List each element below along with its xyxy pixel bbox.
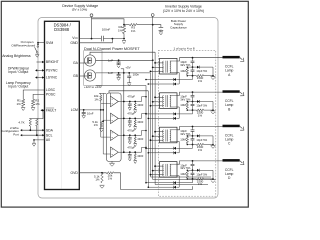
capacitor 470pF b bbox=[129, 118, 131, 121]
svg-text:POSC: POSC bbox=[46, 93, 56, 97]
wire SCL bbox=[21, 134, 45, 136]
svg-text:(12V ± 10% to 24V ± 10%): (12V ± 10% to 24V ± 10%) bbox=[163, 9, 204, 13]
capacitor 100nF decoupling bbox=[100, 36, 102, 42]
+5V rail down bbox=[123, 69, 125, 152]
inverter rail v4 bbox=[153, 16, 211, 179]
svg-text:470pF: 470pF bbox=[127, 112, 135, 116]
ground 5.1k lcm bbox=[99, 128, 103, 130]
svg-text:LOSC: LOSC bbox=[46, 88, 56, 92]
svg-text:1%: 1% bbox=[118, 28, 123, 32]
resistor 20k bbox=[107, 172, 114, 174]
bus v3 bbox=[151, 73, 212, 177]
svg-text:4300: 4300 bbox=[137, 137, 143, 141]
wire Q1 out bbox=[96, 59, 153, 61]
wire output U2c bbox=[118, 134, 141, 136]
wire output U2d bbox=[118, 151, 141, 153]
IC U1 DS3984/DS3988 box bbox=[45, 21, 80, 189]
wire 5V terminal down bbox=[91, 17, 93, 39]
svg-text:100n: 100n bbox=[133, 73, 140, 77]
capacitor 10nF LCM bbox=[83, 110, 85, 113]
svg-text:4300: 4300 bbox=[137, 103, 143, 107]
svg-text:GND: GND bbox=[70, 41, 78, 45]
resistor 4300 a bbox=[134, 102, 136, 104]
op-amp supply stub bbox=[110, 93, 112, 97]
svg-text:Port: Port bbox=[13, 133, 19, 137]
svg-text:SVM: SVM bbox=[46, 41, 54, 45]
resistor R3 bbox=[130, 23, 138, 26]
inverter supply terminal bbox=[151, 14, 154, 17]
transistor Q2 (N-channel MOSFET) bbox=[84, 70, 95, 81]
resistor R2 bbox=[31, 99, 34, 106]
op-amp internal divider line bbox=[61, 22, 63, 188]
capacitor 470pF c bbox=[129, 135, 131, 138]
svg-text:GB: GB bbox=[73, 74, 79, 78]
svg-text:470pF: 470pF bbox=[127, 129, 135, 133]
rail taps channel B bbox=[154, 96, 156, 98]
svg-text:BRIGHT: BRIGHT bbox=[46, 60, 59, 64]
wire aux rail bbox=[109, 91, 148, 94]
op-amp U2c bbox=[111, 130, 119, 140]
wire output U2b bbox=[118, 117, 141, 119]
wire FAULT bbox=[41, 109, 45, 111]
svg-text:A0: A0 bbox=[46, 138, 50, 142]
mosfet module box bbox=[84, 51, 102, 86]
svg-text:FAULT: FAULT bbox=[46, 109, 56, 113]
device supply terminal bbox=[90, 14, 93, 17]
svg-text:100nF: 100nF bbox=[102, 27, 111, 31]
wire 5V to R4 bbox=[92, 19, 125, 26]
node Q1 out cap bbox=[118, 59, 120, 61]
svg-text:1%: 1% bbox=[108, 177, 113, 181]
wire 20k to bottom bus bbox=[114, 173, 193, 190]
svg-text:470pF: 470pF bbox=[127, 95, 135, 99]
ground cap b bbox=[128, 123, 131, 125]
node inverter rail bbox=[152, 24, 154, 26]
svg-text:470pF: 470pF bbox=[127, 145, 135, 149]
rail taps channel A bbox=[154, 62, 156, 64]
arrow into switch bbox=[37, 43, 39, 44]
arrow PSYNC bbox=[36, 69, 45, 71]
bulk capacitor bbox=[159, 26, 164, 28]
resistor 4300 b bbox=[134, 118, 136, 120]
wire out tail a bbox=[142, 97, 147, 102]
svg-text:Input / Output: Input / Output bbox=[8, 70, 28, 74]
ground at R1 bbox=[21, 107, 25, 109]
op-amp U2b bbox=[111, 113, 119, 123]
wire Q1 drain up bbox=[90, 52, 155, 55]
wire input U2d bbox=[103, 153, 110, 155]
transformer/lamp channel C bbox=[145, 125, 244, 155]
module outline (gray rounded box) bbox=[38, 18, 218, 199]
resistor R1 bbox=[22, 99, 25, 106]
pullup resistor 4.7K b bbox=[36, 119, 38, 127]
node OVD bbox=[101, 172, 103, 174]
svg-text:10nF: 10nF bbox=[87, 111, 94, 115]
svg-text:SDA: SDA bbox=[46, 128, 54, 132]
wire OVD bbox=[79, 172, 106, 174]
wire input U2a bbox=[101, 102, 111, 104]
arrow into BRIGHT bbox=[37, 61, 45, 63]
svg-text:PSYNC: PSYNC bbox=[46, 69, 58, 73]
wire out tail c bbox=[142, 131, 147, 136]
resistor 10k bbox=[100, 95, 102, 101]
bus v2 bbox=[147, 91, 149, 187]
wire stub to bulk cap bbox=[153, 25, 161, 28]
dashed box: 1 of up to 4 or 8 bbox=[158, 50, 216, 196]
ground cap a bbox=[128, 106, 131, 108]
ground cap d bbox=[128, 157, 131, 159]
capacitor 1nF a bbox=[118, 60, 120, 62]
capacitor 470pF a bbox=[129, 102, 131, 105]
svg-text:LCM: LCM bbox=[71, 108, 78, 112]
svg-text:Off/Reset=closed: Off/Reset=closed bbox=[11, 43, 35, 47]
ground at R4 bottom bbox=[122, 40, 126, 42]
ground res d bbox=[134, 160, 137, 162]
svg-text:GA: GA bbox=[73, 61, 79, 65]
rail taps channel D bbox=[154, 165, 156, 167]
wire cap to gnd node bbox=[104, 38, 125, 40]
resistor 5.1k ovd bbox=[101, 173, 103, 183]
svg-text:1%: 1% bbox=[94, 123, 99, 127]
wire pullup a to SDA bbox=[29, 126, 31, 130]
wire R4 bottom bbox=[123, 34, 125, 39]
wire R4 node to R3 bbox=[124, 24, 130, 26]
svg-text:OVD: OVD bbox=[71, 171, 79, 175]
bus vertical b bbox=[102, 93, 104, 154]
svg-text:LSYNC: LSYNC bbox=[46, 76, 58, 80]
ground 100n bbox=[127, 82, 131, 84]
bus vertical a bbox=[100, 101, 102, 137]
transformer/lamp channel A bbox=[145, 56, 244, 86]
wire pullup b to SCL bbox=[36, 126, 38, 135]
bus v5 bbox=[155, 52, 208, 184]
svg-text:1%: 1% bbox=[35, 102, 40, 106]
op-amp U2a bbox=[111, 96, 119, 106]
wire GA to Q1 gate bbox=[79, 62, 87, 64]
pullup rail bbox=[29, 110, 43, 118]
wire input U2b bbox=[103, 119, 110, 121]
capacitor 470pF d bbox=[129, 152, 131, 155]
node R4 top bbox=[123, 24, 125, 26]
transformer/lamp channel B bbox=[145, 90, 244, 120]
pullup resistor 4.7K a bbox=[29, 119, 31, 127]
ground at A0 bbox=[32, 142, 36, 144]
node LCM cap bbox=[83, 109, 85, 111]
wire input U2c bbox=[101, 136, 111, 138]
svg-text:+5V: +5V bbox=[125, 65, 130, 69]
ground under op-amp box bbox=[111, 161, 113, 163]
svg-text:1nF: 1nF bbox=[108, 71, 113, 75]
capacitor 1nF b bbox=[118, 73, 120, 75]
wire 10k top bbox=[99, 92, 106, 94]
svg-text:DS3988: DS3988 bbox=[54, 27, 70, 32]
ground res a bbox=[134, 109, 137, 111]
ground res c bbox=[134, 143, 137, 145]
+5V stub bbox=[121, 68, 124, 70]
svg-text:Analog Brightness: Analog Brightness bbox=[2, 54, 31, 58]
svg-text:Input / Output: Input / Output bbox=[8, 85, 28, 89]
svg-text:1nF: 1nF bbox=[108, 59, 113, 63]
wire SVM pin bbox=[38, 42, 45, 44]
ground LCM cap bbox=[82, 114, 86, 116]
capacitor 100n bbox=[128, 73, 130, 76]
svg-text:1 of up to 4 or 8: 1 of up to 4 or 8 bbox=[173, 46, 194, 50]
resistor 5.1k lcm bbox=[100, 121, 102, 127]
svg-text:4.7K: 4.7K bbox=[18, 121, 24, 125]
wire out tail d bbox=[142, 147, 147, 152]
svg-text:4300: 4300 bbox=[137, 120, 143, 124]
resistor R4 bbox=[122, 25, 125, 33]
wire LCM bbox=[79, 109, 103, 111]
op-amp U2d bbox=[111, 147, 119, 157]
wire out tail b bbox=[142, 114, 147, 119]
node 5V drop bbox=[91, 38, 93, 40]
wire POSC bbox=[33, 94, 44, 99]
border frame bbox=[1, 1, 248, 207]
wire mosfet source rail bbox=[96, 84, 146, 86]
ground at bulk cap bbox=[159, 31, 163, 33]
ground 1nF a bbox=[117, 64, 121, 66]
wire output U2a bbox=[118, 101, 141, 103]
wire A0 bbox=[34, 140, 45, 143]
svg-text:SCL: SCL bbox=[46, 133, 53, 137]
bus v1 bbox=[145, 86, 147, 183]
ground res b bbox=[134, 126, 137, 128]
ground 5.1k ovd bbox=[100, 184, 105, 186]
arrow LSYNC bbox=[36, 77, 45, 79]
svg-text:1%: 1% bbox=[95, 178, 100, 182]
transformer/lamp channel D bbox=[145, 159, 244, 189]
rail taps channel C bbox=[154, 131, 156, 133]
ground 1nF b bbox=[117, 76, 121, 78]
svg-text:Dual N-Channel Power MOSFET: Dual N-Channel Power MOSFET bbox=[84, 47, 140, 51]
node Q1 rail bbox=[152, 59, 154, 61]
svg-text:4300: 4300 bbox=[137, 154, 143, 158]
wire LOSC bbox=[23, 90, 44, 99]
svg-text:1%: 1% bbox=[16, 102, 21, 106]
ground at switch bbox=[35, 53, 39, 55]
switch S1 bbox=[37, 46, 39, 48]
wire Q2 out bbox=[96, 72, 151, 74]
svg-text:(5V ± 10%): (5V ± 10%) bbox=[72, 8, 87, 12]
svg-text:Capacitance: Capacitance bbox=[170, 25, 187, 29]
wire GB to Q2 gate bbox=[79, 75, 87, 77]
transistor Q1 (N-channel MOSFET) bbox=[84, 55, 95, 66]
node R4 bottom / gnd rail bbox=[123, 38, 125, 40]
wire R3 to inverter rail bbox=[137, 24, 153, 26]
ground cap c bbox=[128, 140, 131, 142]
resistor 4300 d bbox=[134, 152, 136, 154]
ground at R2 bbox=[31, 107, 35, 109]
wire SDA bbox=[21, 129, 45, 131]
node cap-gnd bbox=[112, 38, 114, 40]
wire VCC pin rail bbox=[79, 38, 101, 40]
op-amp box U2 bbox=[106, 93, 121, 161]
svg-text:1%: 1% bbox=[94, 97, 99, 101]
resistor 4300 c bbox=[134, 135, 136, 137]
wire GND pin bbox=[79, 39, 112, 43]
svg-text:1%: 1% bbox=[131, 29, 136, 33]
